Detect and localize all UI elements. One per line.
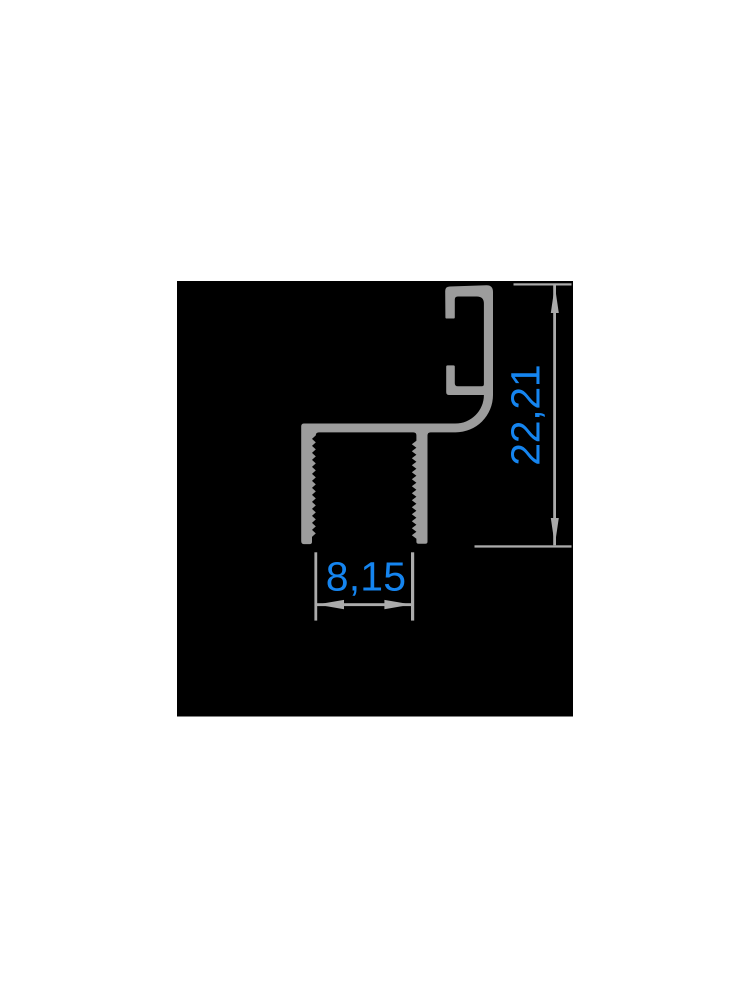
arrowhead down [551, 518, 559, 545]
extension line top (right dimension) [514, 283, 572, 285]
arrowhead left [317, 600, 344, 609]
extension line right (bottom dimension) [411, 552, 414, 620]
aluminium profile cross-section [301, 285, 493, 544]
drawing background panel [177, 281, 573, 717]
extension line left (bottom dimension) [314, 552, 317, 620]
extension line bottom (right dimension) [475, 545, 572, 547]
arrowhead up [551, 286, 559, 313]
svg-text:8,15: 8,15 [326, 554, 407, 600]
svg-text:22,21: 22,21 [502, 365, 548, 466]
dimension line horizontal 8,15 [317, 603, 413, 606]
arrowhead right [384, 600, 411, 609]
dimension line vertical 22,21 [553, 286, 556, 546]
